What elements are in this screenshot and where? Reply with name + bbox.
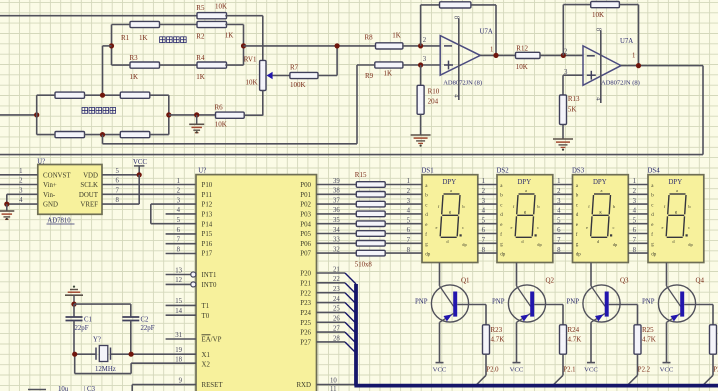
svg-text:c: c	[613, 225, 615, 230]
svg-text:P2: P2	[713, 366, 718, 373]
resistor R4	[196, 54, 226, 81]
svg-text:33: 33	[333, 237, 340, 244]
svg-text:P06: P06	[300, 241, 311, 248]
display DS4	[648, 168, 704, 263]
svg-text:VREF: VREF	[80, 202, 98, 209]
resistor R7	[290, 63, 318, 89]
wire	[84, 134, 120, 136]
svg-text:100K: 100K	[290, 81, 306, 89]
svg-text:e: e	[436, 225, 438, 230]
potentiometer RV1	[244, 56, 273, 91]
svg-text:VCC: VCC	[584, 366, 598, 373]
svg-text:P02: P02	[300, 202, 311, 209]
svg-text:R3: R3	[130, 54, 139, 62]
svg-text:VDD: VDD	[83, 172, 98, 179]
pin stub P13	[166, 213, 196, 215]
svg-text:RESET: RESET	[202, 382, 224, 389]
svg-text:DPY: DPY	[518, 179, 532, 186]
wire	[0, 154, 703, 156]
wire	[37, 134, 55, 136]
svg-text:1: 1	[490, 46, 493, 53]
label 调零电桥	[160, 37, 187, 43]
svg-text:P20: P20	[300, 271, 311, 278]
svg-text:INT1: INT1	[202, 272, 217, 279]
svg-text:DOUT: DOUT	[79, 192, 99, 199]
VCC symbol	[133, 159, 147, 175]
wire P2.1	[552, 354, 575, 386]
pin stub P17	[166, 253, 196, 255]
svg-text:1: 1	[177, 178, 180, 185]
svg-text:8: 8	[595, 28, 602, 32]
svg-text:P10: P10	[202, 182, 213, 189]
svg-text:P04: P04	[300, 221, 311, 228]
pin 8 stub	[453, 16, 460, 100]
svg-text:Y?: Y?	[93, 337, 101, 344]
svg-text:Q1: Q1	[461, 277, 470, 285]
svg-text:1K: 1K	[139, 34, 148, 42]
node J	[418, 62, 423, 67]
svg-text:P25: P25	[300, 320, 311, 327]
wire P2.0	[475, 354, 499, 386]
pin numbers DS3	[557, 178, 561, 254]
svg-text:Q2: Q2	[546, 277, 555, 285]
svg-text:P23: P23	[300, 300, 311, 307]
svg-text:2: 2	[423, 37, 427, 44]
svg-text:a: a	[450, 188, 452, 193]
resistor R3	[130, 54, 160, 81]
svg-text:10u: 10u	[58, 386, 69, 391]
svg-text:34: 34	[333, 227, 340, 234]
wire	[168, 95, 170, 134]
wire	[74, 353, 96, 355]
pin X2	[75, 354, 211, 373]
wire	[480, 54, 515, 56]
svg-text:10K: 10K	[592, 11, 604, 19]
node I	[418, 43, 423, 48]
bus vertical	[354, 284, 358, 386]
IC U? 8051	[196, 168, 317, 391]
svg-text:510x8: 510x8	[355, 262, 373, 269]
resistor R24	[560, 305, 582, 355]
wire	[225, 16, 262, 61]
svg-text:DPY: DPY	[443, 179, 457, 186]
wire	[225, 25, 243, 66]
wire	[244, 114, 263, 116]
svg-text:VCC: VCC	[510, 366, 524, 373]
svg-text:U7A: U7A	[480, 29, 493, 36]
svg-text:10: 10	[330, 377, 337, 384]
resistor R9	[365, 62, 403, 80]
pin numbers DS1	[407, 178, 411, 254]
wires P2 bus entries	[317, 266, 357, 353]
pin 1 wire	[0, 168, 38, 175]
svg-text:4.7K: 4.7K	[642, 335, 656, 343]
wire	[403, 45, 440, 47]
svg-text:11: 11	[330, 386, 337, 391]
svg-text:DS1: DS1	[422, 168, 434, 175]
wire	[0, 15, 197, 17]
svg-text:6: 6	[116, 178, 120, 185]
svg-text:U7A: U7A	[620, 38, 633, 45]
pin numbers DS4	[633, 178, 637, 254]
svg-text:1: 1	[632, 53, 635, 60]
svg-text:4: 4	[595, 97, 602, 101]
pin names P10-P17	[202, 182, 213, 258]
ground	[65, 286, 83, 305]
svg-text:PNP: PNP	[492, 298, 505, 305]
node S	[72, 352, 77, 357]
pin INT0	[166, 277, 217, 289]
svg-text:22: 22	[333, 276, 340, 283]
resistor bridge-TL	[55, 92, 85, 98]
svg-text:39: 39	[333, 178, 340, 185]
pin 4 stub	[595, 97, 602, 101]
svg-text:10K: 10K	[215, 3, 227, 11]
svg-text:U?: U?	[198, 168, 206, 175]
svg-text:SCLK: SCLK	[80, 182, 98, 189]
segment wires DS1-DS2	[478, 185, 497, 254]
resistor bridge-BR	[120, 132, 150, 138]
node N	[636, 63, 641, 68]
svg-text:204: 204	[428, 97, 439, 105]
svg-text:T0: T0	[202, 313, 210, 320]
resistor R8	[365, 32, 403, 50]
svg-text:DS3: DS3	[572, 168, 585, 175]
svg-text:37: 37	[333, 197, 340, 204]
svg-text:2: 2	[19, 178, 23, 185]
ground	[411, 114, 431, 146]
svg-text:R12: R12	[516, 45, 528, 53]
svg-text:DPY: DPY	[669, 179, 683, 186]
svg-text:R8: R8	[365, 34, 374, 42]
svg-text:P11: P11	[202, 192, 213, 199]
resistor R13	[560, 75, 581, 124]
wire	[563, 74, 583, 76]
svg-text:23: 23	[333, 286, 340, 293]
wire	[318, 46, 337, 76]
svg-text:P16: P16	[202, 241, 213, 248]
pin 8 wire	[102, 175, 139, 204]
transistor Q1	[415, 263, 486, 374]
svg-text:8: 8	[453, 16, 460, 20]
pin numbers 1-8	[177, 178, 181, 254]
svg-text:R13: R13	[568, 95, 580, 103]
pin EA/VP	[166, 332, 222, 344]
svg-text:P2.1: P2.1	[563, 366, 575, 373]
svg-text:C2: C2	[141, 317, 150, 324]
svg-text:C1: C1	[84, 317, 92, 324]
pin 4 wire	[7, 194, 38, 204]
wire	[403, 64, 440, 66]
wire P2.2	[627, 354, 651, 386]
wires P0 bus	[317, 178, 357, 254]
svg-text:e: e	[511, 225, 513, 230]
svg-text:36: 36	[333, 207, 340, 214]
resistor R1	[121, 21, 160, 42]
svg-text:U?: U?	[37, 159, 45, 166]
svg-text:a: a	[601, 188, 603, 193]
pin names P00-P07	[300, 182, 311, 258]
svg-text:R15: R15	[355, 171, 367, 179]
svg-text:P14: P14	[202, 221, 213, 228]
pin stub P15	[166, 233, 196, 235]
resistor bridge-TR	[120, 92, 150, 98]
svg-text:c: c	[688, 225, 690, 230]
svg-text:dp: dp	[576, 252, 582, 257]
pin RESET	[132, 377, 223, 391]
svg-text:25: 25	[333, 306, 340, 313]
svg-text:22pF: 22pF	[141, 325, 155, 332]
svg-text:| C3: | C3	[84, 386, 96, 391]
svg-text:dp: dp	[500, 252, 506, 257]
svg-text:32: 32	[333, 246, 340, 253]
svg-text:c: c	[462, 225, 464, 230]
wire	[225, 24, 243, 26]
resistor R26	[710, 305, 717, 355]
wire	[150, 134, 169, 136]
svg-text:P17: P17	[202, 251, 213, 258]
svg-text:T1: T1	[202, 303, 210, 310]
svg-text:10K: 10K	[215, 121, 227, 129]
pin 8 stub	[595, 28, 602, 103]
resistor Rf1	[440, 2, 471, 8]
wire	[103, 46, 112, 95]
pin 5 wire	[102, 168, 139, 175]
display DS1	[422, 168, 478, 263]
resistor R12	[516, 45, 541, 71]
resistor bridge-BL	[55, 132, 85, 138]
svg-text:4: 4	[19, 197, 23, 204]
svg-text:8: 8	[177, 246, 181, 253]
pin 3 wire	[7, 187, 38, 194]
svg-text:R1: R1	[121, 34, 130, 42]
op-amp U7A	[423, 29, 494, 87]
resistor R10	[417, 65, 440, 114]
svg-text:31: 31	[175, 332, 182, 339]
node P	[4, 202, 9, 207]
svg-text:P03: P03	[300, 212, 311, 219]
svg-text:12: 12	[175, 277, 182, 284]
node C	[335, 43, 340, 48]
svg-text:dp: dp	[651, 252, 657, 257]
svg-text:R25: R25	[642, 326, 654, 334]
svg-text:R9: R9	[365, 72, 374, 80]
IC U? AD7810	[37, 159, 102, 225]
svg-text:CONVST: CONVST	[43, 172, 71, 179]
svg-text:R4: R4	[196, 54, 205, 62]
ground	[553, 125, 573, 151]
svg-text:38: 38	[333, 188, 340, 195]
wire	[112, 64, 131, 66]
wire	[356, 65, 358, 144]
svg-text:1K: 1K	[225, 32, 234, 40]
node M	[561, 53, 566, 58]
svg-text:AD8072JN (8): AD8072JN (8)	[601, 80, 640, 87]
svg-text:R5: R5	[196, 4, 205, 12]
svg-text:P27: P27	[300, 340, 311, 347]
svg-text:RXD: RXD	[296, 382, 311, 389]
svg-text:24: 24	[333, 296, 340, 303]
svg-text:P22: P22	[300, 290, 311, 297]
ground	[189, 115, 204, 133]
wire	[421, 5, 440, 46]
svg-text:5K: 5K	[568, 105, 577, 113]
svg-text:8: 8	[116, 197, 120, 204]
pin 7 wire	[102, 187, 196, 194]
svg-text:EA/VP: EA/VP	[202, 337, 222, 344]
pin names P20-P27	[300, 271, 311, 347]
svg-text:DS2: DS2	[497, 168, 510, 175]
svg-text:P2.2: P2.2	[638, 366, 651, 373]
svg-text:28: 28	[333, 335, 340, 342]
node R	[71, 302, 76, 307]
resistor R2	[196, 21, 233, 40]
svg-text:1K: 1K	[384, 69, 393, 77]
svg-text:1K: 1K	[392, 32, 401, 40]
wire	[621, 65, 703, 67]
wire	[262, 91, 264, 116]
svg-text:R7: R7	[290, 63, 299, 71]
node G	[100, 132, 105, 137]
svg-text:Vin+: Vin+	[43, 182, 57, 189]
svg-text:10K: 10K	[246, 78, 258, 86]
svg-text:a: a	[676, 188, 678, 193]
segment wires DS2-DS3	[553, 185, 573, 254]
capacitor C3 partial	[28, 386, 96, 391]
segment wires R15-DS1	[385, 185, 422, 254]
svg-text:Vin-: Vin-	[43, 192, 56, 199]
wire	[84, 94, 120, 96]
svg-text:14: 14	[175, 308, 182, 315]
svg-text:X1: X1	[202, 352, 211, 359]
svg-text:AD8072JN (8): AD8072JN (8)	[443, 79, 482, 86]
svg-text:R10: R10	[428, 88, 440, 96]
resistor R23	[483, 305, 505, 355]
svg-text:PNP: PNP	[567, 298, 580, 305]
svg-text:1K: 1K	[196, 73, 205, 81]
svg-text:X2: X2	[202, 361, 211, 368]
svg-text:4.7K: 4.7K	[491, 335, 505, 343]
wire	[540, 54, 583, 56]
svg-text:INT0: INT0	[202, 282, 217, 289]
svg-text:VCC: VCC	[660, 366, 674, 373]
transistor Q2	[492, 263, 563, 374]
svg-text:e: e	[586, 225, 588, 230]
svg-text:9: 9	[179, 377, 183, 384]
svg-text:22pF: 22pF	[75, 325, 89, 332]
svg-text:2: 2	[564, 49, 568, 56]
svg-text:Q4: Q4	[696, 277, 705, 285]
wire	[169, 114, 216, 116]
wire	[112, 24, 131, 26]
svg-text:6: 6	[177, 227, 181, 234]
svg-text:R23: R23	[491, 326, 503, 334]
pin T1	[166, 298, 210, 310]
svg-text:P15: P15	[202, 231, 213, 238]
label 称重传感器	[82, 108, 116, 114]
resistor R5	[196, 3, 227, 19]
svg-text:35: 35	[333, 217, 340, 224]
svg-text:c: c	[537, 225, 539, 230]
transistor Q4	[642, 263, 713, 374]
node D	[34, 112, 39, 117]
pin RXD	[296, 377, 354, 391]
svg-text:VCC: VCC	[133, 159, 147, 166]
svg-text:dp: dp	[425, 252, 431, 257]
svg-text:1: 1	[19, 168, 22, 175]
wire	[357, 64, 375, 66]
svg-text:Q3: Q3	[620, 277, 629, 285]
node K	[493, 53, 498, 58]
svg-text:GND: GND	[43, 202, 58, 209]
svg-text:5: 5	[116, 168, 120, 175]
pin numbers DS2	[482, 178, 486, 254]
node B	[241, 43, 246, 48]
wire	[160, 24, 197, 26]
svg-text:P24: P24	[300, 310, 311, 317]
wire	[103, 143, 358, 145]
svg-text:AD7810: AD7810	[47, 217, 71, 224]
segment wires DS3-DS4	[628, 185, 648, 254]
node H	[194, 112, 199, 117]
wire	[74, 303, 131, 305]
svg-text:P05: P05	[300, 231, 311, 238]
svg-text:4: 4	[453, 94, 460, 98]
svg-text:12MHz: 12MHz	[95, 366, 116, 373]
svg-text:7: 7	[177, 237, 181, 244]
svg-text:DS4: DS4	[648, 168, 661, 175]
wire	[150, 94, 169, 96]
svg-text:RV1: RV1	[244, 56, 257, 64]
wire	[619, 5, 638, 66]
wire	[272, 75, 290, 77]
wire	[0, 114, 37, 116]
svg-text:3: 3	[19, 187, 23, 194]
capacitor C2	[122, 304, 154, 354]
bus horizontal	[354, 384, 718, 388]
pin INT1	[166, 267, 217, 279]
svg-text:26: 26	[333, 316, 340, 323]
svg-text:13: 13	[175, 267, 182, 274]
node T	[129, 352, 134, 357]
svg-text:P01: P01	[300, 192, 311, 199]
svg-text:R24: R24	[568, 326, 580, 334]
svg-text:3: 3	[423, 56, 427, 63]
wire	[111, 353, 132, 355]
svg-text:18: 18	[175, 357, 182, 364]
display DS2	[497, 168, 553, 263]
svg-text:e: e	[662, 225, 664, 230]
svg-text:R2: R2	[196, 33, 205, 41]
wire	[37, 94, 55, 96]
svg-text:4.7K: 4.7K	[568, 335, 582, 343]
svg-text:10K: 10K	[516, 63, 528, 71]
node F	[166, 112, 171, 117]
svg-text:21: 21	[333, 266, 340, 273]
svg-text:R6: R6	[215, 103, 224, 111]
pin 6 wire	[102, 178, 196, 185]
wire	[471, 5, 496, 56]
resistor network R15	[355, 171, 385, 268]
wire	[244, 45, 376, 47]
svg-text:2: 2	[177, 188, 181, 195]
svg-text:19: 19	[175, 347, 182, 354]
svg-text:27: 27	[333, 325, 340, 332]
svg-text:P00: P00	[300, 182, 311, 189]
pin 4 stub	[453, 94, 460, 98]
svg-text:P26: P26	[300, 330, 311, 337]
svg-text:7: 7	[116, 187, 120, 194]
